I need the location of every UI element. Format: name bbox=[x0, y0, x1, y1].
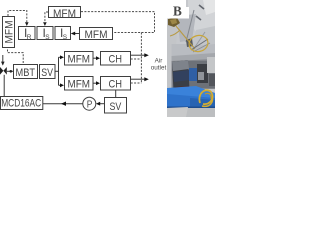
svg-text:S: S bbox=[45, 34, 50, 41]
wire MCD16AC to valve bbox=[3, 75, 5, 96]
current sensor IR bbox=[19, 26, 36, 41]
signal bus top bbox=[81, 12, 155, 33]
solenoid valve SV2 bbox=[105, 98, 127, 114]
signal wire MFMtop to IS1 bbox=[43, 12, 48, 26]
flow meter MFM (top) bbox=[49, 7, 81, 20]
blue platform bbox=[167, 88, 215, 108]
flow meter MFM3 bbox=[65, 52, 94, 66]
moisture buffer tank MBT bbox=[14, 65, 38, 79]
flow meter MFM2 bbox=[80, 28, 113, 41]
svg-text:MFM: MFM bbox=[53, 8, 76, 20]
svg-text:MFM: MFM bbox=[68, 54, 91, 66]
wire SV1 split bbox=[55, 57, 59, 85]
junction dot bbox=[10, 70, 13, 73]
dark cylinder pump bbox=[172, 60, 190, 101]
arrow to MFM4 bbox=[59, 83, 65, 87]
arrow SV2 to pump P bbox=[96, 102, 105, 106]
svg-text:P: P bbox=[87, 99, 93, 110]
flow meter MFM4 bbox=[65, 77, 94, 91]
chamber CH1 bbox=[101, 52, 131, 66]
svg-text:R: R bbox=[27, 34, 32, 41]
signal wire CH1 to bus bbox=[131, 58, 142, 60]
inlet valve bbox=[0, 55, 7, 75]
pump P bbox=[83, 97, 96, 110]
arrow CH2 air outlet bbox=[131, 77, 149, 81]
thin cables in ellipse bbox=[191, 39, 208, 50]
chamber CH2 bbox=[101, 77, 131, 91]
yellow ellipse annotation bbox=[187, 33, 209, 53]
signal wire MFM1 to MBT bbox=[8, 50, 24, 65]
signal wire MFM1 to IR bbox=[8, 11, 29, 27]
equipment clutter band bbox=[171, 57, 215, 89]
svg-text:B: B bbox=[173, 4, 182, 19]
svg-text:SV: SV bbox=[110, 101, 122, 113]
air dryer MCD16AC bbox=[1, 97, 43, 110]
arrow to MFM3 bbox=[59, 55, 65, 59]
svg-text:MFM: MFM bbox=[85, 29, 108, 41]
svg-text:MCD16AC: MCD16AC bbox=[1, 98, 41, 110]
floor bbox=[167, 108, 215, 117]
wire valve to MBT bbox=[7, 70, 13, 72]
svg-text:MFM: MFM bbox=[68, 79, 91, 91]
svg-text:MFM: MFM bbox=[3, 21, 15, 44]
solenoid valve SV1 bbox=[40, 65, 56, 79]
svg-text:MBT: MBT bbox=[16, 67, 36, 79]
svg-text:Air: Air bbox=[155, 57, 163, 64]
wire CH2 to SV2 bbox=[115, 90, 117, 98]
arrow MFM2 to IS2 bbox=[71, 32, 80, 36]
signal bus vertical bbox=[140, 33, 142, 84]
dark sensor blob bbox=[186, 38, 193, 47]
left light strip bbox=[167, 44, 172, 90]
svg-text:S: S bbox=[63, 34, 68, 41]
svg-text:SV: SV bbox=[41, 67, 53, 79]
yellow coiled cable bbox=[199, 90, 212, 104]
arrow MFM4 to CH2 bbox=[94, 81, 101, 85]
gold fitting object bbox=[168, 18, 180, 28]
wire P to MCD16AC with arrow bbox=[43, 102, 83, 106]
arrow MFM3 to CH1 bbox=[94, 56, 101, 60]
air outlet label bbox=[151, 57, 167, 71]
current sensor IS2 bbox=[55, 26, 71, 41]
current sensor IS1 bbox=[37, 26, 53, 41]
arrow CH1 air outlet bbox=[131, 53, 149, 57]
svg-text:CH: CH bbox=[109, 54, 123, 66]
white notch for label bbox=[167, 0, 189, 19]
signal wire CH2 to bus bbox=[131, 82, 142, 84]
photo B bbox=[167, 0, 215, 117]
svg-text:CH: CH bbox=[109, 79, 123, 91]
yellow cable bbox=[176, 26, 195, 49]
svg-text:outlet: outlet bbox=[151, 65, 167, 72]
flow meter MFM1 (vertical) bbox=[3, 17, 16, 48]
